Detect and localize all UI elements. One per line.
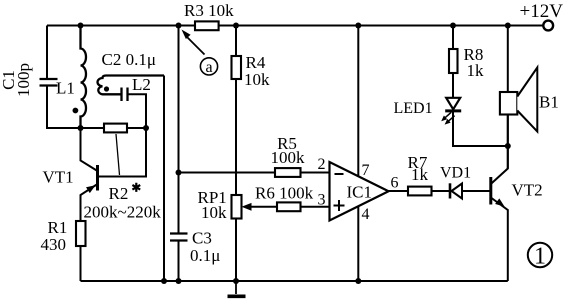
resistor R4 xyxy=(232,56,242,79)
wire C2 right to node xyxy=(129,94,147,128)
wire RP1 bottom xyxy=(235,219,237,282)
wire bottom rail xyxy=(81,280,508,282)
svg-text:200k~220k: 200k~220k xyxy=(84,203,162,222)
wire R2 right xyxy=(127,127,146,129)
svg-text:L2: L2 xyxy=(132,75,151,94)
node L1 bottom xyxy=(78,125,84,131)
capacitor C2 xyxy=(122,88,128,102)
wire speaker bottom xyxy=(507,115,509,169)
capacitor C3 xyxy=(170,234,188,241)
diode VD1 triangle xyxy=(452,184,463,199)
inductor L2 xyxy=(98,76,164,95)
svg-text:a: a xyxy=(205,59,212,76)
node R8 top xyxy=(450,23,456,29)
svg-text:430: 430 xyxy=(41,235,67,254)
wire top rail left segment xyxy=(47,25,195,27)
svg-text:IC1: IC1 xyxy=(347,183,373,202)
transistor VT2 collector xyxy=(491,115,508,185)
resistor R2 xyxy=(104,124,127,133)
svg-text:2: 2 xyxy=(318,156,326,173)
svg-text:100p: 100p xyxy=(14,63,33,97)
wire LED to collector line xyxy=(453,111,508,146)
wire top rail right segment xyxy=(219,25,544,27)
node R2/C2/base junction xyxy=(143,125,149,131)
asterisk mark xyxy=(132,183,140,192)
svg-text:10k: 10k xyxy=(244,70,270,89)
resistor R8 xyxy=(449,49,458,73)
svg-text:1k: 1k xyxy=(467,61,485,80)
wire R1 bottom to rail xyxy=(80,246,82,281)
svg-text:1: 1 xyxy=(534,244,546,270)
node speaker top xyxy=(505,23,511,29)
LED1 emission arrow 2 xyxy=(448,116,454,122)
node C3 bottom xyxy=(176,278,182,284)
wire R6 left xyxy=(250,206,277,208)
svg-text:100k: 100k xyxy=(271,148,306,167)
transistor VT2 emitter xyxy=(491,198,508,282)
LED1 triangle xyxy=(446,98,460,110)
wire divider vertical upper xyxy=(178,26,180,234)
svg-text:7: 7 xyxy=(362,162,370,179)
svg-text:6: 6 xyxy=(391,174,399,191)
LED1 emission arrow 1 xyxy=(445,112,451,118)
node divider top xyxy=(176,23,182,29)
wire left branch upper xyxy=(46,26,48,80)
resistor R6 xyxy=(277,202,301,211)
speaker B1 box xyxy=(500,92,517,115)
terminal +12V xyxy=(543,21,553,31)
leader line R2 label xyxy=(116,134,120,175)
transistor VT1 emitter arrow xyxy=(86,185,96,193)
op-amp IC1 xyxy=(330,162,389,221)
wire L2 feedback down xyxy=(163,76,165,282)
transistor VT2 emitter arrow xyxy=(495,198,504,206)
wire left branch lower xyxy=(47,86,104,129)
svg-text:C2 0.1μ: C2 0.1μ xyxy=(102,50,156,69)
potentiometer RP1 xyxy=(232,195,242,219)
resistor R3 xyxy=(195,21,219,30)
svg-text:R6 100k: R6 100k xyxy=(255,184,314,203)
plus input mark xyxy=(334,200,345,211)
wire R8 to LED xyxy=(452,73,454,98)
node pin4 bottom xyxy=(355,278,361,284)
wire speaker top xyxy=(507,26,509,93)
svg-text:4: 4 xyxy=(362,206,370,223)
circled 1 marker xyxy=(528,243,552,267)
wire R4 to RP1 xyxy=(235,79,237,195)
wire R6 to pin3 xyxy=(301,206,330,208)
svg-text:+12V: +12V xyxy=(520,1,564,22)
svg-text:10k: 10k xyxy=(201,203,227,222)
resistor R7 xyxy=(408,187,432,196)
svg-text:1k: 1k xyxy=(411,165,429,184)
wire VD1 to VT2 base xyxy=(462,190,491,192)
svg-text:R2: R2 xyxy=(109,184,129,203)
svg-text:B1: B1 xyxy=(539,93,559,112)
wire VT1 base to node xyxy=(98,128,147,177)
node a circle xyxy=(200,58,217,75)
resistor R1 xyxy=(76,221,86,246)
resistor R5 xyxy=(275,168,301,177)
node pin7 top xyxy=(355,23,361,29)
transistor VT1 base bar xyxy=(96,165,99,191)
transistor VT1 collector wire xyxy=(81,128,98,171)
node RP1 bottom xyxy=(233,278,239,284)
wire R8 top xyxy=(452,26,454,50)
wire R5 input line xyxy=(179,172,276,174)
svg-text:VD1: VD1 xyxy=(440,165,471,182)
node R5 tap xyxy=(176,170,182,176)
minus input mark xyxy=(335,173,344,175)
arrow RP1 wiper xyxy=(242,203,252,211)
wire R5 to pin2 xyxy=(301,172,330,174)
LED1 cathode bar xyxy=(445,109,461,112)
wire R4 top xyxy=(235,26,237,57)
wire R7 to VD1 xyxy=(432,190,451,192)
diode VD1 cathode bar xyxy=(449,183,452,198)
speaker B1 cone xyxy=(517,68,537,132)
node R3 right xyxy=(233,23,239,29)
wire C3 bottom xyxy=(178,241,180,282)
phase dot L2 xyxy=(104,86,109,91)
svg-text:LED1: LED1 xyxy=(394,100,433,117)
capacitor C1 xyxy=(40,79,58,86)
transistor VT1 emitter xyxy=(81,184,98,221)
svg-text:3: 3 xyxy=(318,192,326,209)
svg-text:R3 10k: R3 10k xyxy=(184,1,234,20)
svg-text:VT2: VT2 xyxy=(512,181,543,200)
phase dot L1 xyxy=(73,108,79,114)
wire pin7 supply xyxy=(357,26,359,177)
inductor L1 xyxy=(81,26,87,129)
svg-text:VT1: VT1 xyxy=(43,168,74,187)
node feedback bottom xyxy=(161,278,167,284)
ground xyxy=(235,281,237,294)
node L1 top xyxy=(78,23,84,29)
node LED/speaker junction xyxy=(505,143,511,149)
wire pin4 ground xyxy=(357,206,359,281)
transistor VT2 base bar xyxy=(489,177,492,205)
arrow a pointer xyxy=(187,37,205,55)
svg-text:L1: L1 xyxy=(56,79,75,98)
svg-text:0.1μ: 0.1μ xyxy=(190,246,220,265)
svg-text:C3: C3 xyxy=(192,229,212,248)
wire output pin6 xyxy=(389,190,409,192)
